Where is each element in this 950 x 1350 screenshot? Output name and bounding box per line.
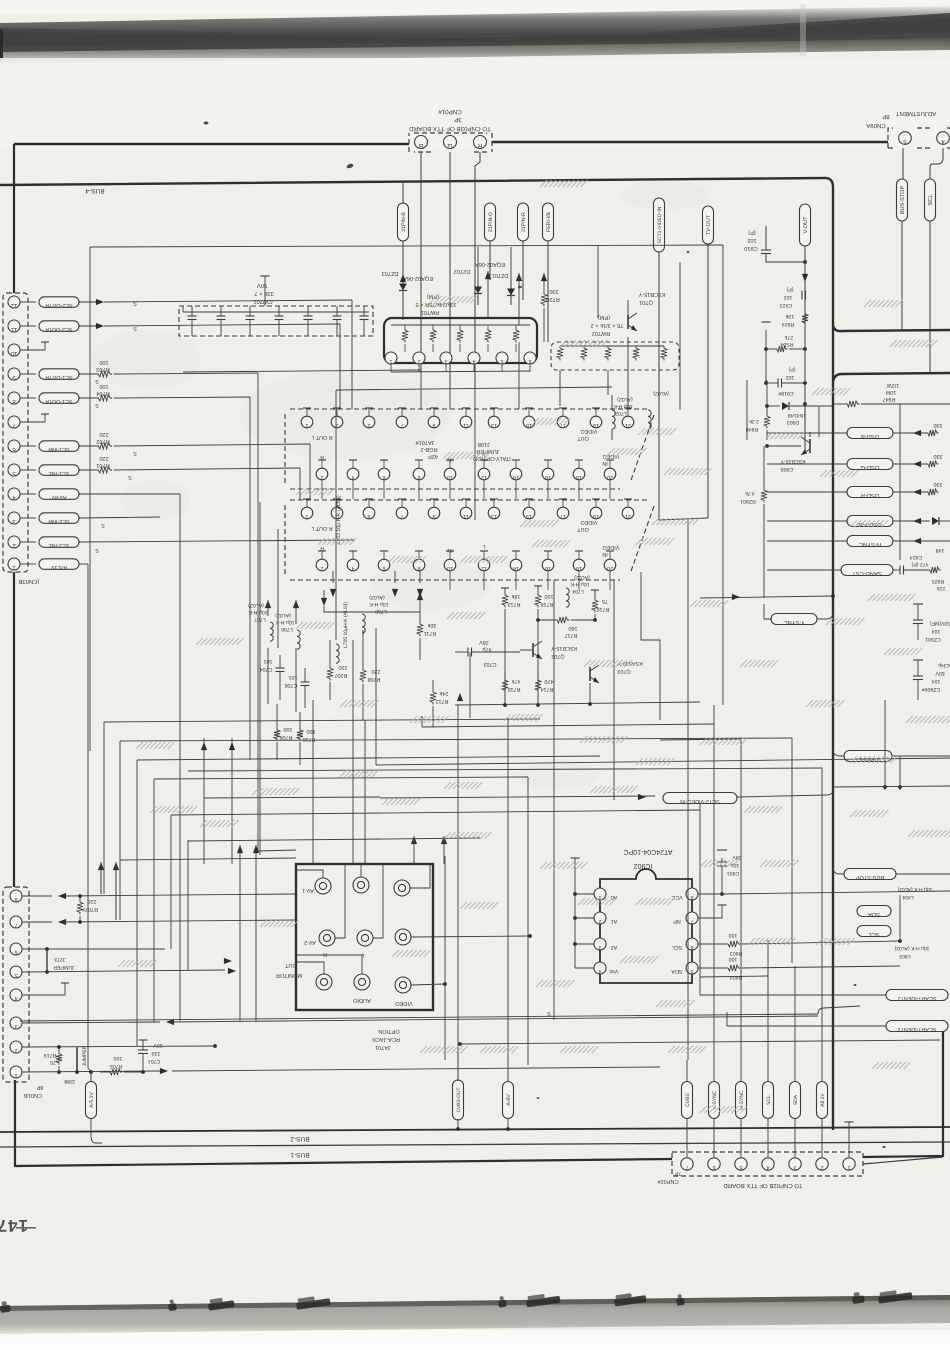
svg-text:A-8V: A-8V xyxy=(506,1094,512,1106)
resistor RW702 element 4 xyxy=(633,346,639,361)
wire left bundle v4 xyxy=(136,760,138,1046)
svg-text:4: 4 xyxy=(472,358,475,364)
pill SC1-OUTR xyxy=(39,369,79,380)
pill A5-8V xyxy=(39,489,79,500)
svg-text:4.7k: 4.7k xyxy=(745,490,755,496)
wire pin1 row xyxy=(22,1071,160,1072)
wire pin 11 to pill xyxy=(20,325,36,327)
connector CN03B 12-pin scart box xyxy=(3,293,28,572)
inductor L705 xyxy=(336,644,339,663)
resistor R702 220 xyxy=(79,445,96,447)
capacitor array element 2 xyxy=(220,306,222,316)
svg-text:R OUT L: R OUT L xyxy=(311,434,332,440)
RCA jack 4 xyxy=(319,930,335,946)
svg-text:J288: J288 xyxy=(64,1078,75,1084)
svg-text:(CN03B: (CN03B xyxy=(19,578,40,585)
svg-text:R OUT L: R OUT L xyxy=(311,525,332,531)
capacitor array element 3 xyxy=(249,306,251,316)
svg-text:150: 150 xyxy=(545,593,554,599)
inductor L707 xyxy=(270,622,273,641)
svg-text:A5-8V: A5-8V xyxy=(51,494,66,500)
arrow down below scart 1 xyxy=(330,589,336,597)
svg-text:220: 220 xyxy=(99,455,108,461)
pill A-5.1V vertical bottom xyxy=(86,1082,97,1119)
svg-text:Q703: Q703 xyxy=(617,668,630,674)
pin 1 of CNP02# xyxy=(843,1158,855,1170)
pill CVBS-OUT vertical xyxy=(453,1080,464,1120)
capacitor array CW701 dashed box xyxy=(179,306,373,336)
pin 1 of JA701 xyxy=(301,416,313,428)
svg-text:R715: R715 xyxy=(508,686,521,692)
wire A-5.1V up xyxy=(90,1072,92,1082)
wire OSD pills left rail xyxy=(767,432,847,434)
node R717 right xyxy=(593,618,597,622)
stub pin 1 of J108 xyxy=(306,499,308,507)
svg-text:6: 6 xyxy=(712,1164,715,1170)
scan speck 2 xyxy=(346,163,354,169)
pill SAND-CST xyxy=(841,565,893,578)
pill FERI-I/B vertical xyxy=(543,203,554,241)
wire 21PIN-B up xyxy=(402,182,404,203)
pin 4 of CNP02# xyxy=(762,1158,774,1170)
resistor R207 220 xyxy=(327,666,333,681)
resistor RZ901 4.7k xyxy=(761,488,767,503)
transistor Q703 xyxy=(589,667,591,681)
scan speck 3 xyxy=(518,286,522,288)
svg-text:SC1-OUTA: SC1-OUTA xyxy=(45,398,72,404)
svg-text:(AL02): (AL02) xyxy=(248,602,264,608)
resistor R717 160 horizontal xyxy=(538,619,555,621)
wire pin R down xyxy=(475,152,480,388)
pill SC2-INL xyxy=(39,537,79,548)
node RS04 right xyxy=(803,347,807,351)
wire SCT2 right xyxy=(737,790,833,797)
wire left bundle v6 xyxy=(170,815,172,949)
pin 5 of CN09A xyxy=(899,132,912,146)
wire A-5.1V down to BUS-1 xyxy=(91,1119,102,1143)
svg-text:R713: R713 xyxy=(508,601,521,607)
jumper J273 xyxy=(46,949,48,972)
pin 3 of CN01B xyxy=(10,1017,22,1029)
svg-text:ITALY-OPTION: ITALY-OPTION xyxy=(473,455,511,461)
svg-text:(AL02): (AL02) xyxy=(617,396,633,402)
svg-text:(P): (P) xyxy=(786,286,793,292)
wire rw702 rail xyxy=(560,345,664,347)
svg-text:6: 6 xyxy=(383,474,386,480)
wire VCC pin8 xyxy=(698,893,722,895)
wire x900 lower vertical xyxy=(899,756,901,790)
svg-text:24k: 24k xyxy=(439,690,448,696)
svg-text:R705: R705 xyxy=(110,1063,123,1069)
svg-text:IN: IN xyxy=(447,547,452,553)
transistor Q702 xyxy=(532,643,534,657)
pin 10 of CN03B xyxy=(8,344,20,357)
svg-text:(P): (P) xyxy=(748,229,756,236)
svg-text:(AL02): (AL02) xyxy=(653,390,669,396)
svg-text:RZ901: RZ901 xyxy=(740,498,756,504)
pin 2 of RW701 xyxy=(413,352,425,364)
wire top rail y247 xyxy=(90,245,723,247)
svg-text:12: 12 xyxy=(481,565,487,571)
svg-text:SCART-IDENT2: SCART-IDENT2 xyxy=(898,995,937,1001)
wire jack row2 col2 right xyxy=(373,864,383,938)
wire caps box to lower rail xyxy=(182,306,184,312)
resistor R947 10M 1/2W horizontal xyxy=(833,403,845,405)
svg-text:A2: A2 xyxy=(611,944,618,950)
wire vertical x260 xyxy=(259,502,261,855)
node SCL junction xyxy=(898,939,902,943)
svg-text:SC2-OUTA: SC2-OUTA xyxy=(45,326,72,332)
svg-text:SC1-INL: SC1-INL xyxy=(49,470,70,476)
svg-text:SDA: SDA xyxy=(793,1094,799,1105)
wire vertical x554 long xyxy=(553,580,555,1020)
svg-text:2: 2 xyxy=(820,1164,823,1170)
node V-OUT junction xyxy=(803,260,807,264)
svg-text:RCA-JACK: RCA-JACK xyxy=(372,1036,400,1042)
stub pin 20 of J108 xyxy=(609,551,611,559)
bus branch to OSD board lower xyxy=(833,373,950,382)
svg-text:6: 6 xyxy=(12,446,16,453)
svg-text:TO CNP03B OF TTX BOARD: TO CNP03B OF TTX BOARD xyxy=(409,125,491,132)
wire jack row1 col3 link xyxy=(410,864,430,888)
pin 8 of JA701 xyxy=(413,468,425,480)
inductor L701 xyxy=(648,410,651,429)
pin 12 of JA701 xyxy=(478,468,490,480)
svg-text:H-SYNC: H-SYNC xyxy=(859,541,881,548)
capacitor C704 101 xyxy=(279,655,281,668)
stub pin 4 of J108 xyxy=(352,551,354,559)
resistor R718 150 xyxy=(535,593,541,608)
svg-text:CVBS: CVBS xyxy=(685,1093,691,1107)
stub pin 20 of JA701 xyxy=(609,460,611,468)
stub pin 7 of JA701 xyxy=(401,408,403,416)
svg-text:60V: 60V xyxy=(935,670,945,676)
svg-text:47µ: 47µ xyxy=(482,646,491,652)
svg-text:10µ H-K: 10µ H-K xyxy=(369,601,389,607)
svg-text:C918#: C918# xyxy=(778,390,793,396)
wire drops below scart2 xyxy=(449,571,451,590)
svg-text:100: 100 xyxy=(114,1055,123,1061)
resistor RW701 element 4 xyxy=(485,328,491,343)
svg-text:OPTION: OPTION xyxy=(378,1028,399,1034)
wire V-OUT down xyxy=(804,246,806,452)
wire SCT1-VIDEO-IN down xyxy=(658,252,660,520)
arrow up mid 3 xyxy=(417,592,423,600)
svg-text:BUS-STOP: BUS-STOP xyxy=(855,874,884,880)
svg-text:A0: A0 xyxy=(611,894,618,900)
wire sand rail arrow xyxy=(700,596,833,598)
svg-text:17: 17 xyxy=(560,513,566,519)
svg-text:DZ703: DZ703 xyxy=(382,270,399,276)
wire mid horizontals h5 xyxy=(204,797,380,798)
wire A-5.1V rail down xyxy=(88,564,91,1082)
pill 21PIN-G vertical xyxy=(485,203,496,241)
wire BUS-STOP down to bus branch xyxy=(901,221,903,330)
pin 4 of RW701 xyxy=(468,352,480,364)
svg-text:1: 1 xyxy=(14,1072,17,1078)
svg-text:(P): (P) xyxy=(788,366,795,372)
wire R703 bend down xyxy=(257,373,259,851)
svg-text:8P: 8P xyxy=(882,113,889,120)
svg-text:S: S xyxy=(95,547,99,553)
wire A8.1V to pin xyxy=(821,1119,823,1157)
svg-text:L706: L706 xyxy=(281,626,293,632)
svg-text:R719: R719 xyxy=(44,1052,57,1058)
stub pin 18 of J108 xyxy=(578,551,580,559)
wire vertical x232 xyxy=(231,738,233,864)
stub pin 17 of JA701 xyxy=(562,408,564,416)
svg-text:R717: R717 xyxy=(565,632,578,638)
svg-text:SC2-INR: SC2-INR xyxy=(48,518,70,524)
svg-text:11: 11 xyxy=(463,422,469,428)
wire SDA up xyxy=(794,1060,796,1081)
svg-text:20: 20 xyxy=(607,474,613,480)
svg-text:(PM): (PM) xyxy=(598,314,610,321)
wire U-RESET left xyxy=(833,749,844,756)
svg-text:10µ H-K: 10µ H-K xyxy=(570,581,590,587)
stub pin 11 of JA701 xyxy=(465,408,467,416)
bus BUS-1 horizontal xyxy=(0,1142,950,1147)
resistor R711 30k xyxy=(417,622,423,637)
stub pin 12 of JA701 xyxy=(483,460,485,468)
wire Y-SYNC left xyxy=(764,604,771,619)
svg-text:R948: R948 xyxy=(746,426,759,432)
wire x598 vertical segment xyxy=(597,245,599,318)
pill SC1-INR xyxy=(39,441,79,452)
pill A-8V vertical xyxy=(503,1082,514,1119)
wire mid horizontals h8 xyxy=(258,850,296,851)
wire x805 down to 404 xyxy=(804,349,806,404)
svg-text:14: 14 xyxy=(513,474,519,480)
pin 4 of JA701 xyxy=(347,468,359,480)
wire h2 corner down xyxy=(791,738,793,963)
svg-text:3: 3 xyxy=(12,518,16,525)
svg-text:OSD-R: OSD-R xyxy=(861,492,880,499)
arrow up feeds xyxy=(400,274,406,282)
wire H-SYNC right xyxy=(893,540,950,542)
svg-text:Y-SYNC: Y-SYNC xyxy=(783,619,804,626)
svg-text:14: 14 xyxy=(513,565,519,571)
pin 18 of J108 xyxy=(573,559,585,571)
resistor R715 47k xyxy=(502,678,508,693)
svg-text:A-5.1V: A-5.1V xyxy=(50,564,67,570)
node C918 left xyxy=(764,381,768,385)
pin 19 of J108 xyxy=(590,507,602,519)
wire L-zone links xyxy=(324,606,420,612)
svg-text:EQA02-06A: EQA02-06A xyxy=(475,261,505,267)
svg-text:S: S xyxy=(547,1010,551,1016)
RCA jack 5 xyxy=(357,930,373,946)
stub pin 14 of J108 xyxy=(515,551,517,559)
svg-text:C910: C910 xyxy=(744,245,757,251)
svg-text:148: 148 xyxy=(936,547,945,553)
svg-text:IN: IN xyxy=(602,460,607,466)
svg-text:1: 1 xyxy=(306,513,309,519)
pin 12 of J108 xyxy=(478,559,490,571)
svg-text:U-RESET: U-RESET xyxy=(855,756,881,763)
pin 16 of JA701 xyxy=(542,468,554,480)
wire jack row2 col1 right xyxy=(335,864,345,938)
wire OSD-B right xyxy=(893,432,926,434)
svg-text:330: 330 xyxy=(549,288,558,294)
wire jack row3 col2 up xyxy=(296,955,362,974)
stub pin 6 of JA701 xyxy=(383,460,385,468)
RCA jack 8 xyxy=(354,974,370,990)
svg-text:11: 11 xyxy=(463,513,469,519)
wire R704 bend down xyxy=(249,397,251,760)
svg-text:330: 330 xyxy=(934,453,943,459)
wire vertical x414 arrows xyxy=(411,836,417,844)
jumper J288 heavy xyxy=(76,1047,78,1072)
wire vertical x240 xyxy=(239,845,241,1021)
pill SC2-INR xyxy=(39,513,79,524)
pill SDA vertical xyxy=(790,1082,801,1119)
svg-text:SDA: SDA xyxy=(671,968,682,974)
pill Y-SYNC xyxy=(771,614,817,627)
stub pin 2 of J108 xyxy=(321,551,323,559)
capacitor C703 47u 28V xyxy=(455,651,468,653)
svg-text:R720: R720 xyxy=(546,296,559,302)
svg-text:50V: 50V xyxy=(153,1042,163,1048)
pill BUS-STOP vertical xyxy=(897,179,908,221)
svg-text:SC1-INR: SC1-INR xyxy=(48,446,70,452)
pill SCT1-VIDEO-IN vertical xyxy=(654,198,665,252)
pin 8 of IC902 xyxy=(686,888,698,900)
svg-text:RGB-2: RGB-2 xyxy=(420,446,437,452)
connector CNP02# to TTX board xyxy=(672,1152,863,1176)
svg-text:472 (P): 472 (P) xyxy=(911,561,928,567)
wire jack row1 col1 in xyxy=(296,870,323,878)
wire pill A-5.1V out xyxy=(79,563,88,565)
svg-text:Q702: Q702 xyxy=(551,653,564,659)
pin 6 of CN01B xyxy=(10,943,22,955)
capacitor C901 10u 28V xyxy=(721,858,723,862)
wire caps common rail xyxy=(183,311,369,313)
pin 8 of CN03B xyxy=(8,392,20,405)
pill V-SYNC vertical xyxy=(709,1082,720,1119)
wire pin3 row long xyxy=(22,1022,160,1023)
stub pin 21 of J108 xyxy=(627,499,629,507)
svg-text:15: 15 xyxy=(526,422,532,428)
pin 5 of JA701 xyxy=(363,416,375,428)
stub pin 17 of J108 xyxy=(562,499,564,507)
pin 7 of JA701 xyxy=(396,416,408,428)
pill V-OUT vertical xyxy=(800,204,811,246)
svg-text:10: 10 xyxy=(447,474,453,480)
wire vertical x278 xyxy=(277,529,279,648)
inductor L706 xyxy=(297,630,300,649)
svg-text:L708: L708 xyxy=(375,608,387,614)
svg-text:R716: R716 xyxy=(597,606,610,612)
stub pin 10 xyxy=(20,342,45,350)
svg-text:10: 10 xyxy=(447,565,453,571)
svg-text:J273: J273 xyxy=(54,956,65,962)
svg-text:JA701#: JA701# xyxy=(415,439,435,445)
capacitor array element 5 xyxy=(307,306,309,316)
wire mid horizontals h4b xyxy=(188,768,822,771)
pill A-5.1V xyxy=(39,559,79,570)
svg-text:28V: 28V xyxy=(732,854,742,860)
stub pin 4 of JA701 xyxy=(352,460,354,468)
wire left bundle v5 xyxy=(153,779,155,1022)
svg-text:J108: J108 xyxy=(478,441,490,447)
wire pin2 row xyxy=(22,1046,215,1047)
svg-text:VIDEO: VIDEO xyxy=(395,1000,413,1006)
pin 20 of J108 xyxy=(604,559,616,571)
wire RW702 to scart xyxy=(559,370,561,406)
svg-text:2: 2 xyxy=(321,474,324,480)
svg-text:D2702: D2702 xyxy=(454,268,470,274)
pin 17 of J108 xyxy=(557,507,569,519)
scan speck 1 xyxy=(204,122,209,125)
capacitor C706 101 xyxy=(304,668,306,682)
pin 4 of CN01B xyxy=(10,989,22,1001)
svg-text:7: 7 xyxy=(401,513,404,519)
svg-text:100: 100 xyxy=(729,932,738,938)
svg-text:16: 16 xyxy=(545,474,551,480)
svg-text:2: 2 xyxy=(599,918,602,924)
wire mid horizontals h6 xyxy=(171,810,700,815)
resistor RW701 element 1 xyxy=(402,328,408,343)
wire top pills to caps zone 1 xyxy=(420,372,422,409)
svg-text:R703: R703 xyxy=(96,366,109,372)
resistor RW701 element 2 xyxy=(430,328,436,343)
node RS04 left xyxy=(764,347,768,351)
scan speck 7 xyxy=(882,1146,886,1148)
wire x519 down xyxy=(518,342,520,409)
svg-text:R702: R702 xyxy=(96,438,109,444)
pill 21PIN-R vertical xyxy=(518,203,529,241)
arrow up mid 1 xyxy=(265,600,271,608)
svg-text:CVBS-OUT: CVBS-OUT xyxy=(456,1088,462,1113)
wire right rail x767 top xyxy=(766,380,768,406)
svg-text:4: 4 xyxy=(766,1164,769,1170)
wire pin5 row xyxy=(22,970,225,972)
svg-text:19: 19 xyxy=(593,422,599,428)
svg-text:8: 8 xyxy=(691,894,694,900)
stub pin 8 of J108 xyxy=(418,551,420,559)
wire Q908 node rail xyxy=(767,445,801,447)
svg-text:11: 11 xyxy=(10,326,17,333)
wire IC902 left rail xyxy=(574,858,576,968)
svg-text:7: 7 xyxy=(691,918,694,924)
svg-text:50V: 50V xyxy=(257,282,267,289)
wire jack row3 col3 out right xyxy=(411,984,445,985)
stub pin 12 of J108 xyxy=(483,551,485,559)
stub pin 2 of JA701 xyxy=(321,460,323,468)
wire frame left vertical lower xyxy=(14,1080,16,1167)
wire mid horizontals h1 xyxy=(104,719,540,722)
resistor R716 75 xyxy=(592,598,598,613)
RCA jack 3 xyxy=(394,880,410,896)
transistor Q908 xyxy=(809,439,811,453)
svg-text:8: 8 xyxy=(12,398,16,405)
svg-text:4: 4 xyxy=(12,494,16,501)
svg-text:1: 1 xyxy=(847,1164,850,1170)
pill SCART-IDENT1 xyxy=(886,1021,948,1033)
wire pin G down xyxy=(449,152,451,388)
svg-text:10µ H-K: 10µ H-K xyxy=(248,609,268,615)
svg-text:3: 3 xyxy=(14,1023,17,1029)
svg-text:CN09A: CN09A xyxy=(866,122,885,129)
connector CN09A adjustment xyxy=(888,128,950,148)
wire vertical x444 arrows xyxy=(441,836,447,844)
wire left bundle v7 xyxy=(187,840,189,970)
wire pin 1 to pill xyxy=(20,563,36,565)
wire CVBS up xyxy=(686,1060,688,1081)
svg-text:L903: L903 xyxy=(899,953,910,959)
pin 5 of CN01B xyxy=(10,966,22,978)
